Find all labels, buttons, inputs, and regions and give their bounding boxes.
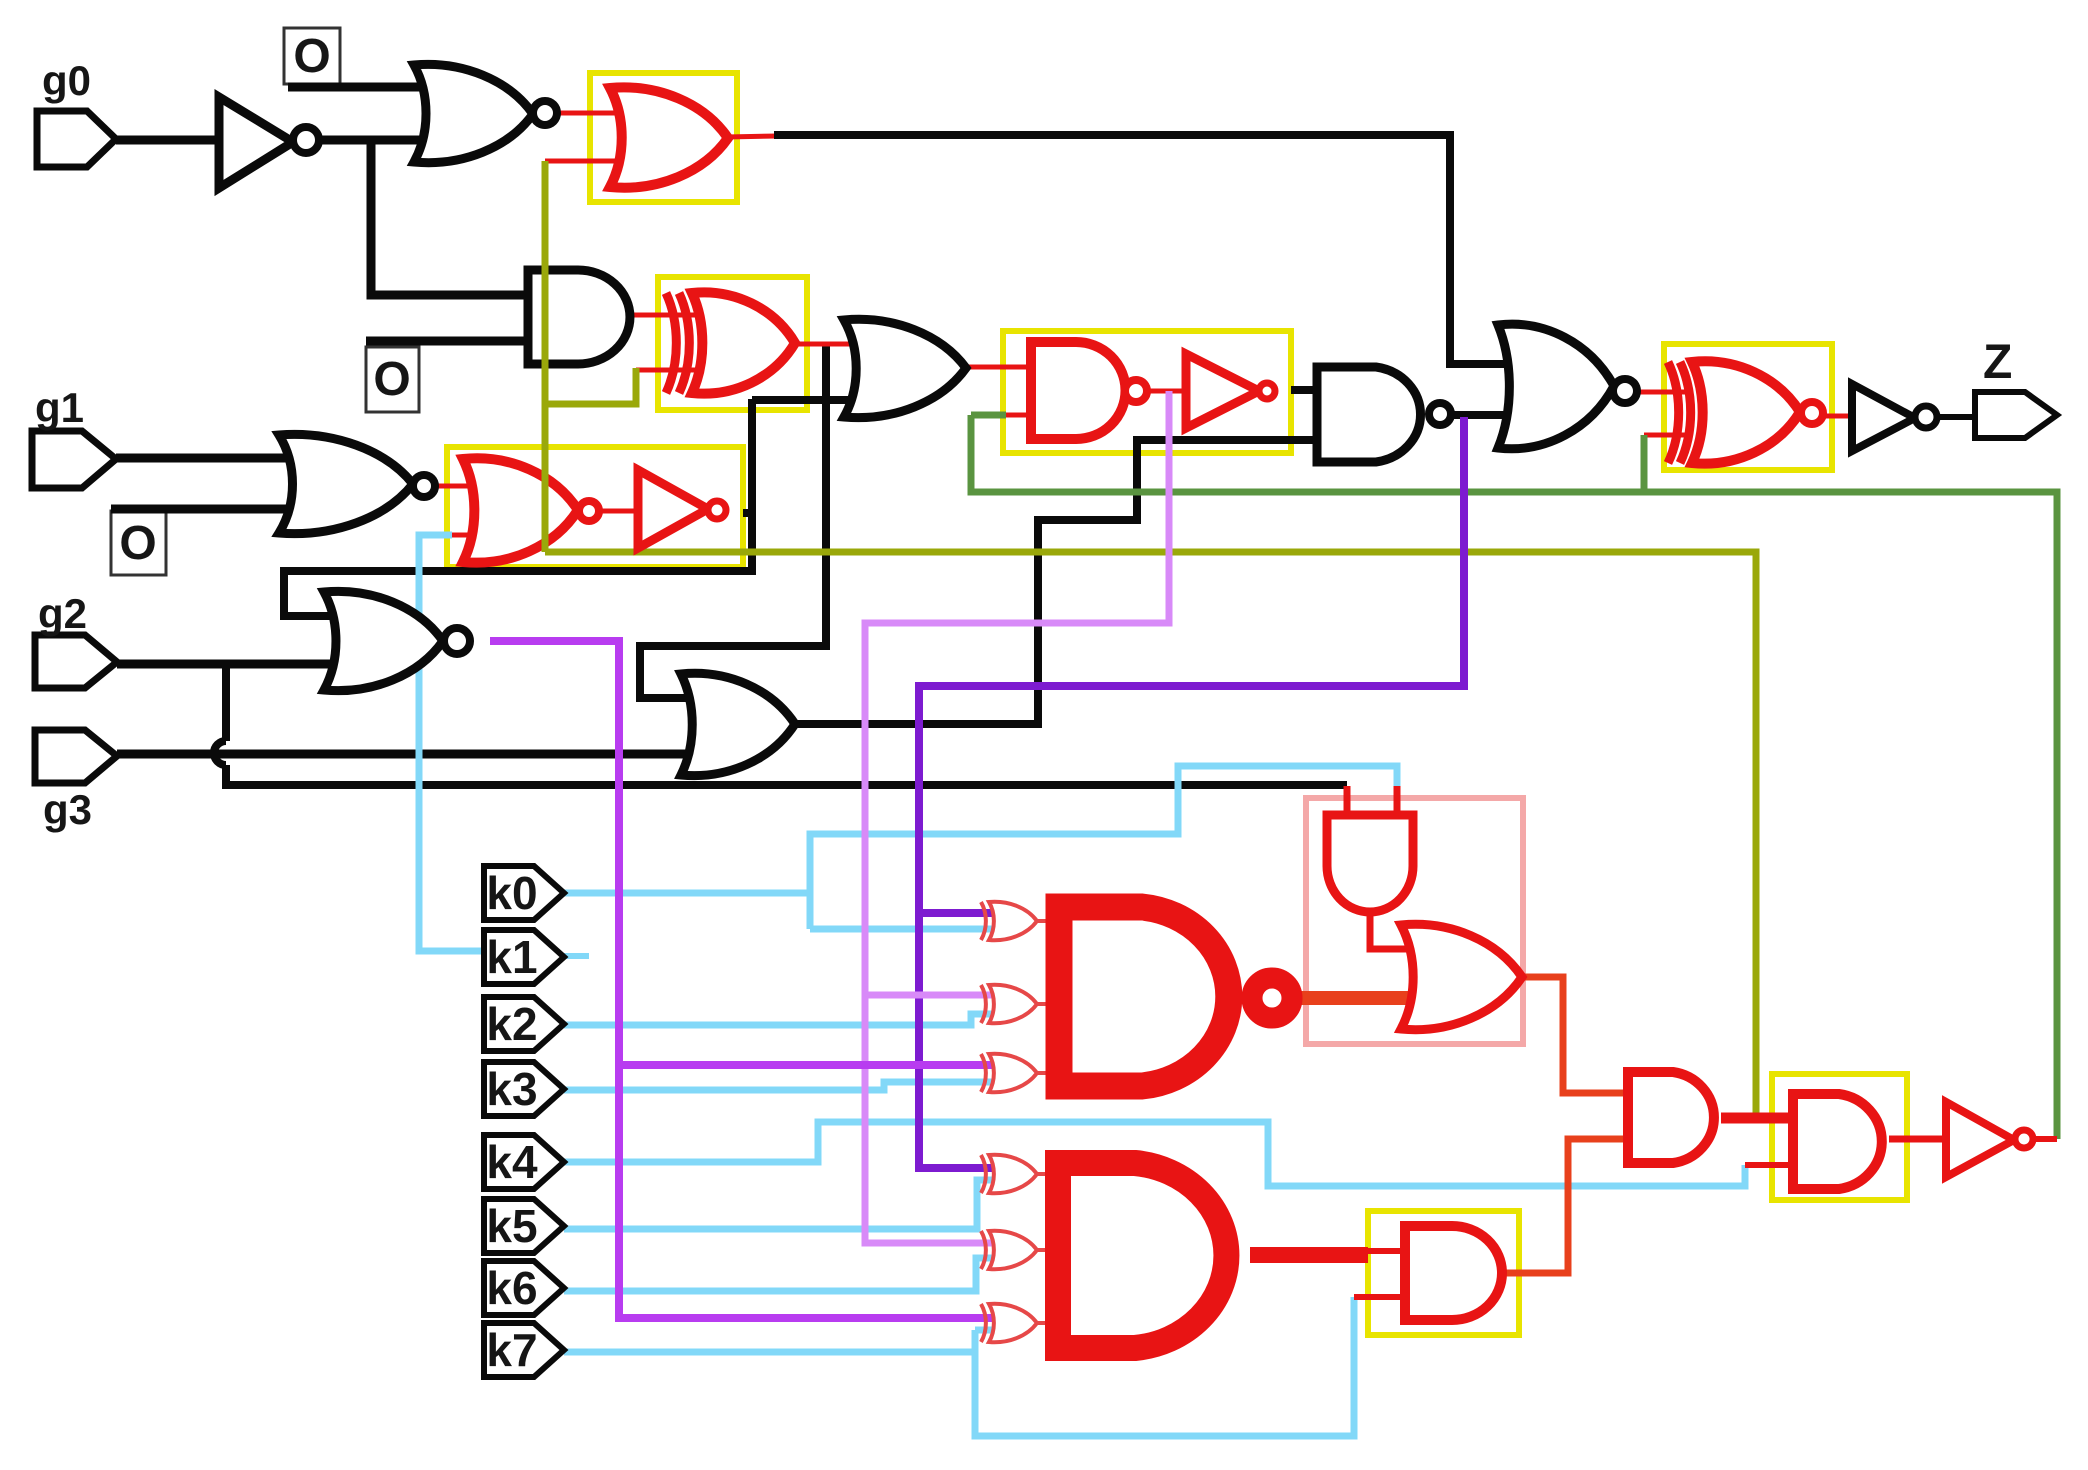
cyan net k5 to XOR X4 <box>564 1180 993 1229</box>
svg-text:g0: g0 <box>42 57 91 104</box>
magenta net from NOR U8 output to XOR X3 and XOR X6 <box>490 641 992 1318</box>
NOR U8 <box>324 591 443 690</box>
red wire green net to XNOR U16 second input <box>1644 433 1690 438</box>
red wire U3 output to OR U2 <box>556 111 645 116</box>
input tag k0 <box>484 866 564 920</box>
small red XOR X6 <box>989 1304 1037 1342</box>
AND U4 <box>528 270 630 364</box>
yellow box around OR U2 <box>590 73 737 202</box>
svg-text:Z: Z <box>1983 336 2012 389</box>
red AND U22 <box>1628 1072 1714 1163</box>
red wire green net to NAND U12 second input <box>1003 413 1050 418</box>
svg-text:k4: k4 <box>486 1136 538 1188</box>
red wire olive net to XOR U5 second input <box>636 368 710 373</box>
NOR U15 <box>1498 324 1614 449</box>
input tag k2 <box>484 997 564 1051</box>
red wire U20 output to OR U21 <box>1370 912 1458 949</box>
wire U18 output to Z <box>1937 414 1978 420</box>
svg-text:k6: k6 <box>486 1262 537 1314</box>
wire U14 output to NOR U15 <box>1450 411 1515 419</box>
red wire U21 output to AND U22 <box>1522 977 1640 1093</box>
constant box O3 <box>366 347 419 412</box>
wire U10 output net to OR U6 and NOR U8 <box>743 509 752 517</box>
red AND U20 vertical <box>1327 815 1413 912</box>
NOR U3 <box>414 64 533 162</box>
svg-text:k3: k3 <box>486 1063 537 1115</box>
olive net from OR U2 input down and across to AND U24 <box>545 368 636 404</box>
input tag g2 <box>35 635 117 688</box>
input tag g0 <box>37 111 116 167</box>
input tag g1 <box>32 431 116 488</box>
yellow box around AND U24 <box>1772 1074 1907 1200</box>
red NOR U9 <box>463 458 578 562</box>
cyan net k2 to XOR X2 <box>564 1014 993 1025</box>
red wire U5 output to OR U6 <box>795 342 875 347</box>
inverter U18 <box>1852 384 1915 451</box>
wire U2 output long to NOR U15 <box>774 135 1515 364</box>
red wire U24 output to inverter U25 <box>1889 1136 1950 1143</box>
wire g1 to NOR U7 <box>116 454 315 463</box>
svg-text:k1: k1 <box>486 931 537 983</box>
small red XOR X5 <box>989 1231 1037 1269</box>
NAND U14 <box>1317 367 1421 462</box>
svg-text:O: O <box>293 30 330 83</box>
purple net from U14 output to XOR X1 and XOR X4 <box>919 417 1464 1168</box>
red wire k1 net to NOR U9 second input <box>447 533 490 538</box>
cyan net k3 to XOR X3 <box>564 1082 993 1090</box>
red wire U12 output to inverter U13 <box>1148 389 1188 394</box>
cyan net k7 to XOR X6 and AND U26 <box>564 1349 975 1356</box>
wire U13 output to NAND U14 <box>1291 386 1335 394</box>
small red XOR X2 <box>989 985 1037 1023</box>
OR U11 <box>681 673 795 775</box>
wire O2 to NOR U7 <box>111 505 315 514</box>
input tag k7 <box>484 1323 564 1377</box>
red XNOR U16 <box>1692 361 1800 463</box>
red stubs AND U20 inputs <box>1344 786 1351 818</box>
constant box O2 <box>111 511 166 575</box>
pink box around AND U20 / OR U21 <box>1306 798 1523 1044</box>
OR U6 <box>844 319 966 417</box>
red AND U26 <box>1405 1226 1502 1320</box>
thick red wire U22 output to AND U24 <box>1721 1113 1805 1124</box>
yellow box around AND U26 <box>1368 1211 1519 1335</box>
thick red wire NAND N1 output to OR U21 <box>1300 991 1462 1005</box>
wire O1 to NOR U3 <box>288 83 460 92</box>
svg-text:g2: g2 <box>38 590 87 637</box>
red wire U7 output to NOR U9 <box>435 484 490 489</box>
red wire U25 output to green net <box>2033 1136 2057 1142</box>
svg-text:k7: k7 <box>486 1324 537 1376</box>
red OR U21 <box>1401 924 1522 1029</box>
cyan net k4 to AND U24 <box>564 1122 1745 1186</box>
input tag k6 <box>484 1261 564 1315</box>
red wire U26 output to AND U22 <box>1502 1139 1640 1273</box>
big red AND N2 <box>1058 1163 1226 1348</box>
wire U1 output to NOR U3 and node A <box>320 136 460 145</box>
wire U11 output to NAND U14 <box>795 440 1335 724</box>
red wire U9 output to inverter U10 <box>599 509 640 514</box>
cyan net k1 up to NOR U9 <box>419 535 484 951</box>
constant box O1 <box>284 28 340 84</box>
red XOR U5 <box>692 292 795 393</box>
inverter U1 <box>219 97 293 188</box>
red stubs XOR outputs into NAND N1 / AND N2 <box>1037 919 1056 923</box>
small red XOR X1 <box>989 902 1037 940</box>
red inverter U10 <box>638 470 708 548</box>
big red NAND N1 <box>1059 907 1229 1086</box>
input tag g3 <box>35 730 117 783</box>
wire g0 to inverter U1 <box>116 136 222 145</box>
red AND U24 <box>1793 1094 1882 1189</box>
input tag k1 <box>484 930 564 984</box>
red inverter U13 <box>1186 354 1259 428</box>
cyan net k0 to AND U20 and XOR X1 <box>564 890 810 897</box>
input tag k4 <box>484 1135 564 1189</box>
svg-text:k5: k5 <box>486 1200 537 1252</box>
red inverter U25 <box>1946 1102 2014 1177</box>
red wire U15 output to XNOR U16 <box>1636 390 1690 395</box>
wire node A down to AND U4 <box>371 140 545 295</box>
red wire U16 output to inverter U18 <box>1823 414 1856 419</box>
output tag Z <box>1975 392 2057 438</box>
red NAND U12 <box>1031 342 1126 439</box>
cyan stub right of k1 <box>564 953 589 959</box>
input tag k5 <box>484 1199 564 1253</box>
yellow box around NAND U12 / inverter U13 <box>1003 331 1291 453</box>
wire g2 to NOR U8 <box>117 660 345 669</box>
yellow box around NOR U9 / inverter U10 <box>447 447 743 567</box>
svg-text:g1: g1 <box>35 384 84 431</box>
svg-text:O: O <box>373 353 410 406</box>
wire XOR U5 output branch to OR U11 <box>640 344 826 698</box>
green net from inverter U25 output to NAND U12 and XNOR U16 <box>971 415 2057 1139</box>
olive net vertical over gates to OR U2 <box>542 161 549 552</box>
yellow box around XNOR U16 <box>1664 344 1832 470</box>
wire g2 branch down to AND U20 with hop over g3 <box>222 664 230 741</box>
red stub cyan k7 into AND U26 <box>1354 1294 1410 1300</box>
cyan net k6 to XOR X5 <box>564 1258 993 1291</box>
wire g3 to OR U11 <box>117 750 706 759</box>
red OR U2 <box>610 87 728 187</box>
svg-text:k2: k2 <box>486 998 537 1050</box>
yellow box around XOR U5 <box>658 277 807 410</box>
violet net from U12 output to XOR X2 and XOR X5 <box>865 391 1169 1243</box>
red wire U6 output to NAND U12 <box>966 365 1050 370</box>
svg-text:O: O <box>119 517 156 570</box>
input tag k3 <box>484 1062 564 1116</box>
small red XOR X4 <box>989 1155 1037 1193</box>
red wire olive net to OR U2 second input <box>545 159 645 164</box>
wire O3 to AND U4 <box>366 337 545 346</box>
red wire U4 output to XOR U5 <box>630 313 710 318</box>
red stub cyan k4 into AND U24 <box>1745 1162 1805 1168</box>
thick red wire AND N2 output to AND U26 <box>1250 1247 1368 1263</box>
small red XOR X3 <box>989 1054 1037 1092</box>
red stub OR U2 output <box>726 136 778 137</box>
NOR U7 <box>279 434 413 533</box>
svg-text:k0: k0 <box>486 867 537 919</box>
svg-text:g3: g3 <box>43 786 92 833</box>
